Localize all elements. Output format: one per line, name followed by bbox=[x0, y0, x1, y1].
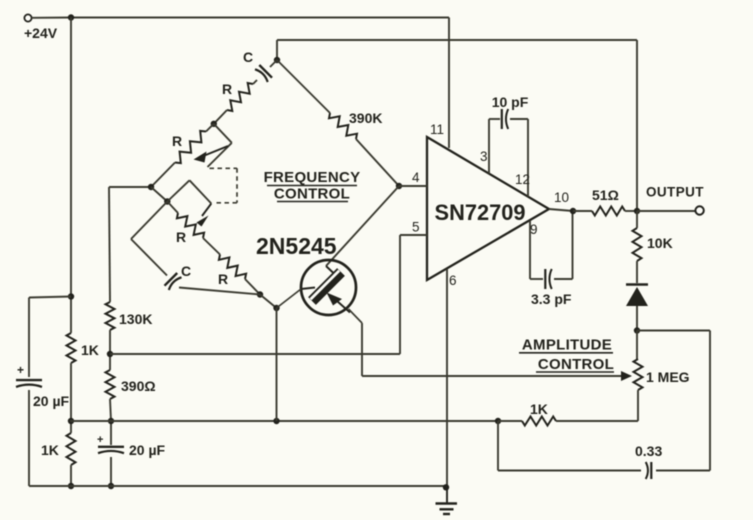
svg-text:R: R bbox=[218, 271, 228, 287]
svg-text:9: 9 bbox=[530, 222, 538, 237]
svg-text:390Ω: 390Ω bbox=[121, 378, 156, 394]
svg-text:3: 3 bbox=[480, 149, 488, 164]
svg-text:2N5245: 2N5245 bbox=[256, 233, 337, 259]
svg-text:+: + bbox=[17, 363, 24, 377]
svg-text:10K: 10K bbox=[647, 235, 673, 251]
svg-text:12: 12 bbox=[515, 172, 530, 187]
svg-text:11: 11 bbox=[430, 122, 444, 137]
svg-text:R: R bbox=[222, 81, 232, 97]
svg-text:5: 5 bbox=[412, 220, 420, 235]
svg-text:R: R bbox=[172, 133, 182, 149]
svg-text:6: 6 bbox=[449, 273, 457, 288]
svg-text:20 µF: 20 µF bbox=[129, 442, 166, 458]
svg-text:130K: 130K bbox=[119, 311, 152, 327]
svg-text:1K: 1K bbox=[530, 401, 548, 417]
svg-text:OUTPUT: OUTPUT bbox=[646, 185, 704, 200]
svg-text:FREQUENCY: FREQUENCY bbox=[264, 169, 361, 186]
svg-text:C: C bbox=[243, 49, 253, 65]
svg-text:CONTROL: CONTROL bbox=[538, 356, 614, 373]
svg-text:+: + bbox=[97, 434, 103, 446]
svg-text:+24V: +24V bbox=[24, 25, 58, 41]
svg-text:C: C bbox=[181, 263, 191, 279]
svg-text:1 MEG: 1 MEG bbox=[646, 369, 690, 385]
svg-text:R: R bbox=[176, 229, 186, 245]
svg-text:3.3 pF: 3.3 pF bbox=[531, 291, 572, 307]
svg-text:20 µF: 20 µF bbox=[33, 393, 70, 409]
svg-text:1K: 1K bbox=[81, 342, 99, 358]
svg-text:10: 10 bbox=[554, 190, 569, 205]
svg-text:SN72709: SN72709 bbox=[435, 200, 526, 225]
svg-text:AMPLITUDE: AMPLITUDE bbox=[522, 337, 612, 354]
svg-text:CONTROL: CONTROL bbox=[274, 186, 350, 203]
svg-text:1K: 1K bbox=[41, 442, 59, 458]
svg-text:0.33: 0.33 bbox=[635, 443, 662, 459]
svg-text:390K: 390K bbox=[349, 110, 382, 126]
svg-text:51Ω: 51Ω bbox=[592, 187, 619, 203]
svg-text:4: 4 bbox=[412, 170, 420, 185]
svg-text:10 pF: 10 pF bbox=[492, 94, 529, 110]
